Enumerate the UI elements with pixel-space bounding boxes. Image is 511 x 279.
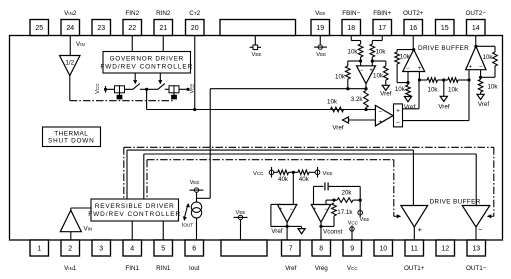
wire <box>351 40 360 42</box>
wire to pin9 <box>351 226 353 241</box>
resistor 10k FBIN- <box>358 44 363 57</box>
node OUT2+ plus <box>418 78 421 81</box>
tab pin top <box>220 20 296 36</box>
wire <box>396 64 398 83</box>
svg-text:+: + <box>469 64 473 70</box>
resistor 10k to Vref <box>384 66 389 80</box>
svg-text:17: 17 <box>378 25 386 32</box>
resistor 40k left <box>278 170 289 175</box>
IC body <box>10 36 503 241</box>
svg-text:6: 6 <box>192 246 196 253</box>
wire to current source top <box>197 197 211 199</box>
feedback wire <box>348 60 361 62</box>
svg-text:10k: 10k <box>483 54 494 61</box>
node Vref tap <box>442 78 445 81</box>
current source S1 <box>115 86 120 93</box>
svg-text:VCC: VCC <box>347 265 359 272</box>
pin 6 <box>185 240 204 256</box>
wire to - input <box>325 200 327 204</box>
pin 22 <box>123 20 142 36</box>
node 3.2k to comparator line <box>364 108 367 111</box>
wire <box>309 171 315 173</box>
resistor 40k right <box>298 170 309 175</box>
wire to pin6 <box>196 218 198 240</box>
bus line 1 dash-dot <box>124 146 494 148</box>
node 17.1k top <box>332 199 335 202</box>
Iout arrow <box>185 204 189 218</box>
svg-text:+: + <box>279 207 283 213</box>
wire <box>365 108 367 110</box>
pin 8 <box>312 240 331 256</box>
svg-text:−: − <box>360 68 364 74</box>
VEE terminal bar <box>234 216 248 218</box>
node OUT2- minus <box>479 76 482 79</box>
resistor 10k FBIN+ <box>370 44 375 57</box>
svg-text:40k: 40k <box>278 176 289 183</box>
wire pin21 RIN2 to governor <box>162 36 164 52</box>
capacitor <box>324 182 326 190</box>
terminal circle <box>318 45 322 49</box>
pin 12 <box>436 240 455 256</box>
wire S2 to VEE <box>179 88 188 90</box>
wire <box>438 79 448 81</box>
wire Vref amp out to pin7 <box>286 222 288 240</box>
wire <box>371 57 373 66</box>
wire to pin11 <box>413 227 415 240</box>
bus line 3 solid <box>144 153 476 155</box>
pin 2 <box>61 240 80 256</box>
resistor 17.1k <box>332 203 337 216</box>
svg-text:FBIN+: FBIN+ <box>373 10 391 17</box>
pin 24 <box>61 20 80 36</box>
switch arm 2 <box>158 84 165 90</box>
svg-text:25: 25 <box>35 25 43 32</box>
svg-text:+: + <box>379 119 383 125</box>
svg-text:Vref: Vref <box>404 104 416 111</box>
pin 20 <box>186 20 205 36</box>
VEE terminal circle <box>315 170 320 175</box>
wire <box>359 186 361 200</box>
wire <box>353 199 360 201</box>
control arrow 2 from governor <box>159 73 161 81</box>
svg-text:10k: 10k <box>335 74 346 81</box>
wire <box>334 199 337 201</box>
control arrow 1 from governor <box>134 73 136 81</box>
wire comparator + out <box>403 108 420 110</box>
VEE terminal bar <box>190 189 204 191</box>
comparator triangle <box>375 105 393 126</box>
svg-text:9: 9 <box>350 246 354 253</box>
svg-text:Vconst: Vconst <box>323 229 343 236</box>
svg-text:22: 22 <box>128 25 136 32</box>
pin 7 <box>282 240 301 256</box>
svg-text:RIN1: RIN1 <box>156 265 171 272</box>
svg-text:1/2: 1/2 <box>65 60 74 67</box>
op-amp OUT2- buffer <box>466 46 486 69</box>
svg-text:4: 4 <box>130 246 134 253</box>
svg-text:23: 23 <box>97 25 105 32</box>
svg-text:10k: 10k <box>376 49 387 56</box>
resistor 10k chain right <box>448 78 458 83</box>
wire pin16 <box>412 36 414 50</box>
pin 18 <box>342 20 361 36</box>
wire - input down <box>407 72 409 86</box>
svg-text:Vreg: Vreg <box>315 265 329 272</box>
op-amp Vref buffer <box>277 205 296 223</box>
wire switch row left <box>106 88 133 90</box>
wire node down <box>146 89 148 109</box>
svg-text:FIN2: FIN2 <box>125 10 139 17</box>
node switch junction <box>145 88 148 91</box>
governor driver block <box>103 52 191 74</box>
wire <box>347 79 349 89</box>
wire below S2 <box>173 93 175 95</box>
contact block S2 <box>171 95 177 100</box>
wire <box>396 50 398 52</box>
resistor 10k feedback <box>346 66 351 79</box>
wire down to current source <box>209 89 211 199</box>
node Vconst out <box>319 225 322 228</box>
resistor 10k chain left <box>419 79 427 81</box>
pin 14 <box>467 20 486 36</box>
wire <box>397 82 408 84</box>
wire <box>360 41 362 45</box>
node OUT2+ minus <box>406 81 409 84</box>
op-amp Vconst <box>311 205 330 223</box>
pin 1 <box>30 240 49 256</box>
wire pin14 <box>475 36 477 47</box>
Vref symbol <box>404 97 411 102</box>
svg-text:5: 5 <box>161 246 165 253</box>
svg-text:Vref: Vref <box>380 90 392 97</box>
wire + input down <box>418 72 420 81</box>
svg-text:VIN2: VIN2 <box>64 10 77 17</box>
wire <box>319 36 321 46</box>
VEE terminal stub <box>317 167 319 178</box>
node OUT2+ apex <box>412 48 415 51</box>
svg-text:20: 20 <box>191 25 199 32</box>
svg-text:−: − <box>324 207 328 213</box>
pin 21 <box>154 20 173 36</box>
wire <box>326 199 334 201</box>
bus line 2 solid <box>127 149 413 151</box>
wire <box>494 66 496 77</box>
op-amp OUT1+ buffer <box>401 206 428 228</box>
node Vref out <box>286 225 289 228</box>
node Vcc <box>104 88 107 91</box>
wire <box>360 57 362 66</box>
resistor 20k <box>337 198 353 203</box>
svg-text:18: 18 <box>347 25 355 32</box>
wire Vconst out to pin8 <box>320 222 322 240</box>
svg-text:+: + <box>418 225 423 234</box>
wire into comparator - <box>366 109 375 111</box>
svg-text:DRIVE BUFFER: DRIVE BUFFER <box>430 199 481 206</box>
wire <box>372 40 382 42</box>
wire to Vref pulldown <box>372 60 386 62</box>
wire to cap <box>314 185 324 187</box>
reversible driver block <box>91 199 179 221</box>
wire up to OUT2- buffer <box>468 80 470 121</box>
svg-text:−: − <box>406 66 410 72</box>
pin 19 <box>311 20 330 36</box>
svg-text:10: 10 <box>379 246 387 253</box>
svg-text:10k: 10k <box>400 54 411 61</box>
svg-text:OUT2+: OUT2+ <box>403 10 424 17</box>
svg-text:SHUT DOWN: SHUT DOWN <box>48 138 95 145</box>
pin 16 <box>404 20 423 36</box>
wire to VEE terminal <box>359 200 361 207</box>
svg-text:REVERSIBLE DRIVER: REVERSIBLE DRIVER <box>95 203 175 210</box>
wire to Vref symbol <box>287 225 302 227</box>
wire divider to Vref amp <box>292 172 294 204</box>
node OUT2- apex <box>474 45 477 48</box>
current source S2 <box>169 86 174 93</box>
VEE terminal circle <box>194 188 198 192</box>
resistor 3.2k <box>364 91 369 108</box>
pin 10 <box>374 240 393 256</box>
feedback wire <box>476 45 495 47</box>
resistor 10k to Vref <box>478 79 483 92</box>
wire pin5 RIN1 <box>162 221 164 240</box>
svg-text:20k: 20k <box>342 190 353 197</box>
svg-text:17.1k: 17.1k <box>337 209 353 216</box>
svg-text:7: 7 <box>289 246 293 253</box>
wire <box>289 171 298 173</box>
wire amp apex up <box>70 208 72 210</box>
svg-text:CT2: CT2 <box>189 10 200 17</box>
wire pin4 FIN1 <box>131 221 133 240</box>
wire <box>321 225 334 227</box>
svg-text:OUT1−: OUT1− <box>466 265 487 272</box>
wire cap to 20k node <box>328 185 360 187</box>
pin 4 <box>123 240 142 256</box>
wire <box>480 92 482 94</box>
wire + input down <box>468 70 470 80</box>
current source circle 2 <box>191 208 201 218</box>
tab pin bottom <box>221 240 267 256</box>
op-amp OUT1- buffer <box>462 206 490 228</box>
VEE terminal circle <box>238 215 242 219</box>
terminal square <box>253 45 258 50</box>
current source circle 1 <box>191 202 201 212</box>
node CT2 junction <box>193 108 196 111</box>
thermal shutdown block <box>43 127 101 147</box>
wire pin20 CT2 down <box>194 36 196 110</box>
svg-text:−: − <box>396 120 400 127</box>
terminal bar <box>250 46 261 48</box>
wire amp to pin2 <box>70 232 72 240</box>
svg-text:10k: 10k <box>327 98 338 105</box>
pin 3 <box>92 240 111 256</box>
node feedback to output line <box>346 87 349 90</box>
svg-text:VIN: VIN <box>84 226 93 233</box>
pin 25 <box>30 20 49 36</box>
arrow into OUT1- buffer <box>487 214 492 218</box>
op-amp FBIN <box>357 66 376 84</box>
Vcc terminal stub <box>271 167 273 178</box>
wire pin18 <box>350 36 352 41</box>
svg-text:1: 1 <box>37 246 41 253</box>
wire <box>333 216 335 227</box>
pin 13 <box>467 240 486 256</box>
feedback wire <box>271 225 287 227</box>
Vref symbol <box>440 96 447 101</box>
svg-text:OUT1+: OUT1+ <box>404 265 425 272</box>
svg-text:Vref: Vref <box>332 125 344 132</box>
svg-text:RIN2: RIN2 <box>156 10 171 17</box>
svg-text:21: 21 <box>159 25 167 32</box>
wire FBIN amp output line <box>210 88 366 90</box>
svg-text:19: 19 <box>316 25 324 32</box>
contact block S1 <box>117 95 123 100</box>
svg-text:DRIVE BUFFER: DRIVE BUFFER <box>418 45 469 52</box>
wire <box>481 76 495 78</box>
svg-text:2: 2 <box>68 246 72 253</box>
bus line 4 dash-dot <box>147 159 394 161</box>
feedback wire <box>270 204 272 226</box>
op-amp OUT2+ buffer <box>403 50 425 72</box>
svg-text:FIN1: FIN1 <box>125 265 139 272</box>
wire <box>458 79 469 81</box>
op-amp 1/2 attenuator <box>60 56 81 76</box>
comparator output stage box <box>394 104 403 127</box>
node 40k divider <box>292 171 295 174</box>
wire arm1 to node <box>140 88 147 90</box>
svg-text:10k: 10k <box>395 86 406 93</box>
node FBIN+ input <box>371 59 374 62</box>
wire comparator input line <box>147 109 366 111</box>
wire <box>274 171 278 173</box>
wire Vref to comparator + <box>349 119 376 121</box>
svg-text:16: 16 <box>409 25 417 32</box>
arrow into OUT1+ buffer <box>397 214 402 218</box>
node FBIN- input <box>359 59 362 62</box>
svg-text:3.2k: 3.2k <box>351 96 364 103</box>
feedback wire <box>271 203 281 205</box>
wire pin22 FIN2 to governor <box>131 36 133 52</box>
wire FBIN amp output <box>365 84 367 89</box>
resistor 10k to Vref <box>406 85 411 97</box>
svg-text:10k: 10k <box>373 73 384 80</box>
wire terminal to source <box>196 192 198 202</box>
wire node to arm2 <box>147 88 158 90</box>
pin 11 <box>405 240 424 256</box>
svg-text:FWD/REV CONTROLLER: FWD/REV CONTROLLER <box>100 63 193 70</box>
svg-text:14: 14 <box>472 25 480 32</box>
wire pin17 <box>381 36 383 41</box>
svg-text:8: 8 <box>319 246 323 253</box>
svg-text:GOVERNOR DRIVER: GOVERNOR DRIVER <box>110 55 184 62</box>
wire 1/2 amp output <box>69 76 71 101</box>
wire pin24 to 1/2 amp <box>69 36 71 56</box>
svg-text:−: − <box>479 64 483 70</box>
switch arm 1 <box>133 84 140 90</box>
svg-text:FWD/REV CONTROLLER: FWD/REV CONTROLLER <box>88 211 181 218</box>
svg-text:−: − <box>478 225 483 234</box>
VEE terminal circle <box>358 210 363 215</box>
wire <box>301 226 303 228</box>
wire <box>385 61 387 66</box>
svg-text:24: 24 <box>66 25 74 32</box>
wire <box>385 80 387 85</box>
wire to pin13 <box>475 227 477 240</box>
svg-text:10k: 10k <box>488 84 499 91</box>
pin 17 <box>373 20 392 36</box>
Vref source for comparator + input <box>343 117 349 123</box>
Vcc terminal circle <box>269 170 274 175</box>
svg-text:+: + <box>418 66 422 72</box>
resistor 10k feedback OUT2+ <box>395 52 400 64</box>
resistor 10k comparator input <box>331 107 344 112</box>
svg-text:3: 3 <box>99 246 103 253</box>
svg-text:10k: 10k <box>448 86 459 93</box>
svg-text:13: 13 <box>472 246 480 253</box>
wire cap feedback <box>313 186 315 204</box>
svg-text:FBIN−: FBIN− <box>342 10 360 17</box>
wire <box>371 41 373 45</box>
pin 9 <box>343 240 362 256</box>
op-amp VIN1 buffer <box>60 210 81 232</box>
wire - input down <box>480 70 482 80</box>
node FBIN output <box>364 87 367 90</box>
Vref symbol <box>477 94 484 99</box>
Vref symbol <box>298 229 305 234</box>
wire arm2 to S2 <box>165 88 169 90</box>
dash-dot wire 1/2 output to switches <box>70 100 174 102</box>
svg-text:10k: 10k <box>348 49 359 56</box>
wire <box>347 61 349 66</box>
svg-text:40k: 40k <box>299 176 310 183</box>
wire amp to reversible box <box>71 207 91 209</box>
pin 23 <box>92 20 111 36</box>
svg-text:Vref: Vref <box>271 228 283 235</box>
terminal bar <box>314 46 327 48</box>
svg-text:−: − <box>290 207 294 213</box>
svg-text:VIN1: VIN1 <box>64 265 77 272</box>
svg-text:Vref: Vref <box>285 265 297 272</box>
svg-text:+: + <box>396 108 400 115</box>
svg-text:Iout: Iout <box>189 265 200 272</box>
svg-text:11: 11 <box>411 246 418 253</box>
feedback wire <box>397 49 414 51</box>
svg-text:15: 15 <box>441 25 449 32</box>
wire to bottom tab <box>240 220 242 240</box>
svg-text:Vref: Vref <box>478 101 490 108</box>
wire comparator - out <box>403 120 470 122</box>
wire up to OUT2+ buffer <box>418 80 420 109</box>
svg-text:+: + <box>313 207 317 213</box>
svg-text:Vref: Vref <box>438 104 450 111</box>
svg-text:12: 12 <box>441 246 449 253</box>
node VEE switch row <box>186 88 189 91</box>
wire below S1 <box>119 93 121 95</box>
wire <box>494 46 496 52</box>
wire Vref tap down <box>443 80 445 96</box>
Vref symbol <box>382 85 389 90</box>
Vcc terminal tick <box>105 86 107 93</box>
resistor 10k feedback OUT2- <box>493 52 498 66</box>
svg-text:10k: 10k <box>428 86 439 93</box>
svg-text:OUT2−: OUT2− <box>466 10 487 17</box>
VEE terminal stub <box>359 208 361 218</box>
pin 15 <box>436 20 455 36</box>
node OUT2- plus <box>467 78 470 81</box>
svg-text:VIN: VIN <box>76 41 85 48</box>
svg-text:−: − <box>379 110 383 116</box>
svg-text:THERMAL: THERMAL <box>54 130 88 137</box>
svg-text:VEE: VEE <box>315 10 325 17</box>
